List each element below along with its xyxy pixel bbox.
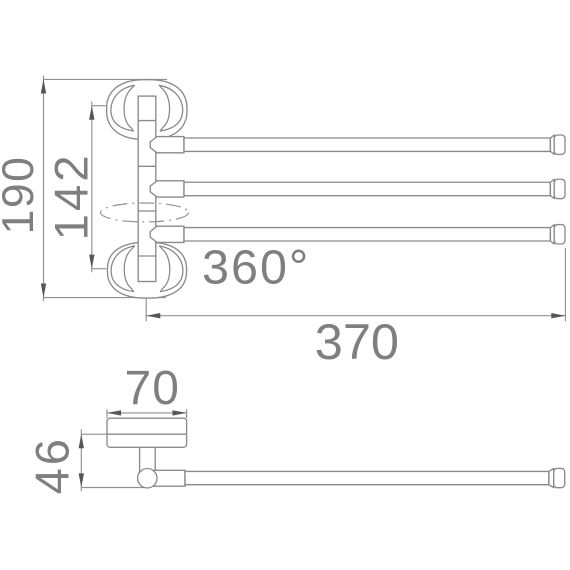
dimension 46 vertical line: [81, 429, 144, 491]
dimension 142 arrows: [89, 106, 94, 269]
dimension 190 arrows: [41, 79, 46, 297]
rotation indicator dashed ellipse: [101, 203, 189, 222]
svg-text:370: 370: [315, 313, 399, 370]
wall mount bottom: right crescent highlight: [159, 246, 182, 292]
dimension 46 arrows: [79, 434, 84, 487]
wall mount top: left crescent highlight: [111, 85, 134, 131]
wall mount bottom (front view): outer oval: [107, 242, 186, 298]
dimension 70 horizontal line: [107, 409, 187, 418]
side view wall plate: [107, 418, 187, 447]
wall mount top (front view): outer oval: [107, 80, 187, 140]
svg-text:70: 70: [125, 362, 180, 415]
svg-text:360°: 360°: [202, 241, 310, 295]
side view arm bar: [185, 468, 565, 487]
wall mount bottom: left crescent highlight: [111, 246, 134, 292]
side view arm hub: [150, 470, 185, 486]
svg-text:190: 190: [0, 156, 43, 235]
svg-text:142: 142: [46, 152, 99, 240]
dimension 190 vertical line: [44, 76, 168, 302]
dimension 142 vertical line: [92, 102, 107, 273]
swivel arm 2: [150, 179, 565, 198]
side view wall plate inner line: [107, 433, 187, 435]
dimension 370 horizontal line: [146, 248, 565, 321]
svg-text:46: 46: [25, 436, 78, 494]
swivel arm 1: [150, 135, 565, 154]
side view pivot circle: [138, 469, 157, 488]
dimension 370 arrows: [146, 313, 565, 318]
swivel arm 3: [150, 225, 565, 244]
wall mount top: right crescent highlight: [159, 85, 182, 131]
side view stem: [140, 447, 156, 474]
vertical post between mounts: [138, 96, 156, 281]
dimension 70 arrows: [107, 410, 187, 415]
post joint lines: [138, 121, 156, 256]
